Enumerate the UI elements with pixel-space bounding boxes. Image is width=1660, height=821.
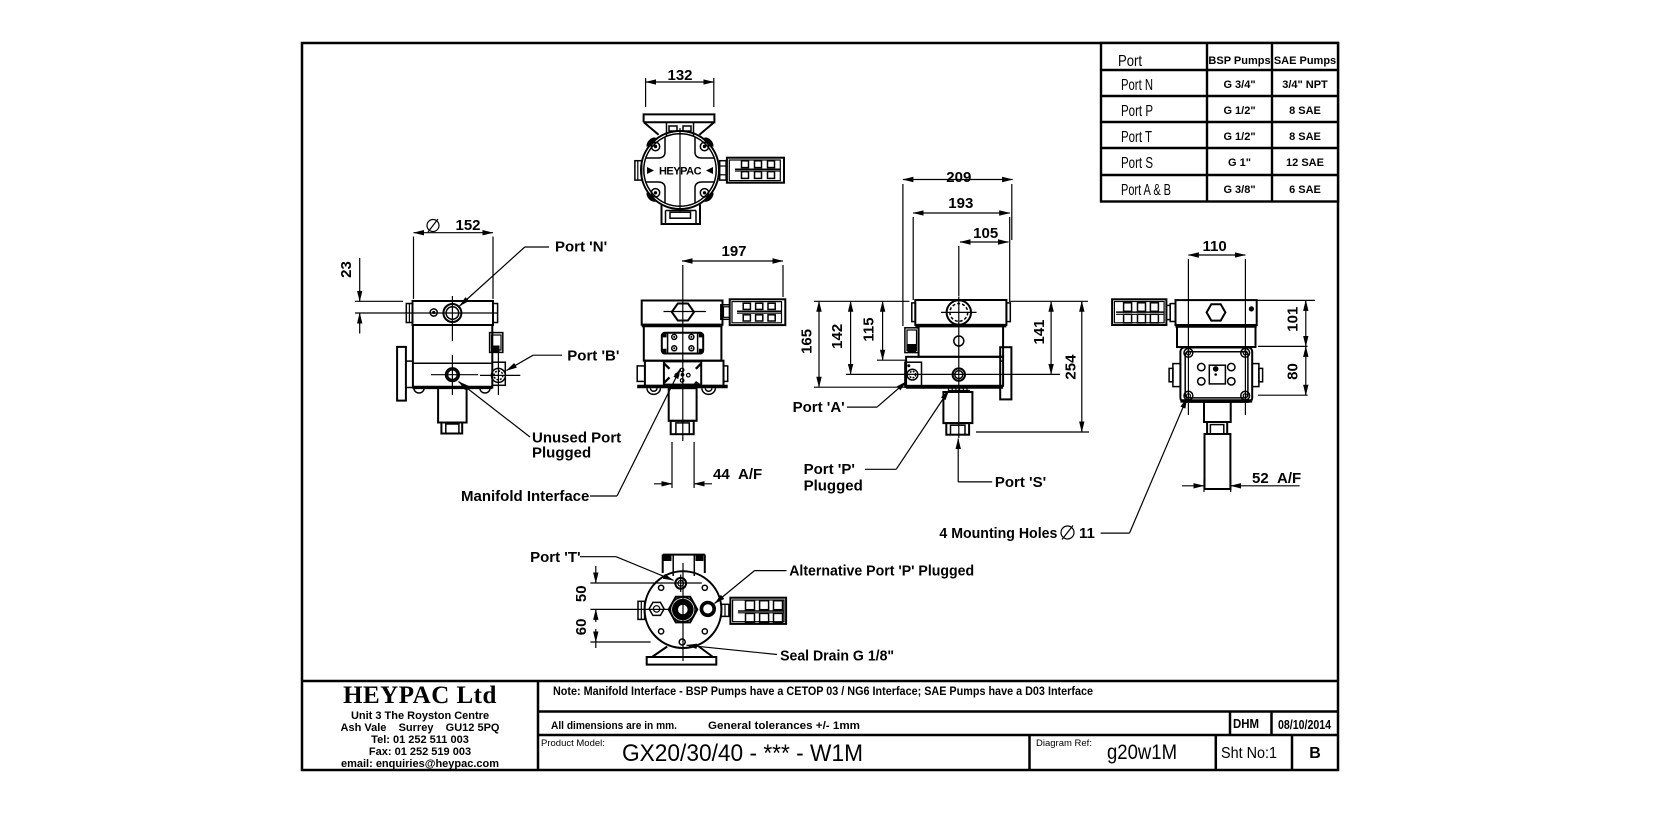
svg-text:B: B — [1309, 745, 1321, 762]
alternative port P circle — [701, 603, 714, 616]
svg-text:8 SAE: 8 SAE — [1289, 105, 1321, 117]
svg-text:Port T: Port T — [1121, 129, 1152, 146]
svg-text:G 1/2": G 1/2" — [1223, 105, 1255, 117]
svg-text:23: 23 — [338, 261, 355, 278]
vertical centerline of top view — [679, 128, 681, 212]
dimension 209 — [903, 169, 1013, 326]
svg-text:Port 'A': Port 'A' — [793, 399, 845, 416]
shaft (view E) — [1204, 402, 1231, 489]
svg-text:All dimensions are in mm.: All dimensions are in mm. — [551, 720, 677, 732]
connector (view C) — [721, 299, 786, 325]
svg-text:Port 'N': Port 'N' — [555, 239, 607, 256]
top flange (view F) — [663, 555, 705, 576]
plugged port N (view D) — [941, 297, 977, 331]
bottom flange (view F) — [647, 647, 717, 665]
dimension 52 A/F — [1182, 470, 1301, 492]
company block text — [341, 682, 500, 770]
svg-text:Port 'P': Port 'P' — [804, 461, 855, 478]
svg-text:Note: Manifold Interface - BSP: Note: Manifold Interface - BSP Pumps hav… — [553, 684, 1093, 698]
svg-text:Port 'T': Port 'T' — [530, 549, 580, 566]
svg-text:152: 152 — [455, 217, 480, 234]
dimension dia 152 — [414, 217, 494, 299]
feet (view C) — [647, 388, 715, 394]
hex boss (view F) — [669, 597, 698, 623]
left mounting flange (view B) — [397, 347, 413, 401]
svg-text:Alternative Port 'P' Plugged: Alternative Port 'P' Plugged — [789, 563, 974, 580]
right neck (view F) — [721, 604, 729, 616]
lower body (view D) — [906, 357, 1003, 387]
port A — [905, 362, 922, 387]
label Port 'A' — [793, 382, 907, 417]
shaft (view D) — [943, 392, 972, 435]
svg-text:Port 'B': Port 'B' — [567, 348, 619, 365]
label Port 'T' — [530, 549, 673, 580]
D03 port pattern (view E) — [1198, 363, 1235, 385]
label Seal Drain G 1/8" — [687, 645, 895, 664]
svg-text:Port A & B: Port A & B — [1121, 182, 1171, 199]
svg-text:142: 142 — [829, 324, 846, 349]
port B — [480, 352, 520, 395]
hex nut (view C) — [664, 304, 707, 321]
plug hatch under port P — [948, 389, 970, 393]
right mounting flange (view D) — [1000, 325, 1011, 399]
label Manifold Interface — [461, 369, 681, 506]
label Port 'P' Plugged — [804, 390, 949, 495]
solenoid tab above port B — [490, 333, 503, 353]
bolt top-left — [651, 142, 659, 150]
svg-text:12 SAE: 12 SAE — [1286, 157, 1324, 169]
bolt slot arcs — [648, 139, 712, 200]
dim lines 50/60 extension lines — [590, 583, 701, 642]
svg-text:105: 105 — [973, 225, 998, 242]
dimension 44 A/F — [654, 442, 762, 488]
title block lines — [302, 681, 1338, 770]
dimension 141 — [1031, 301, 1051, 374]
svg-text:Ash Vale Surrey GU12 5PQ: Ash Vale Surrey GU12 5PQ — [341, 722, 500, 734]
left tab (view F) — [638, 601, 645, 619]
svg-text:Port: Port — [1118, 53, 1142, 70]
svg-text:SAE Pumps: SAE Pumps — [1274, 55, 1336, 67]
svg-text:email: enquiries@heypac.com: email: enquiries@heypac.com — [341, 758, 499, 770]
mid body (view C) — [644, 326, 722, 361]
manifold interface square (view C) — [664, 361, 702, 384]
svg-text:3/4" NPT: 3/4" NPT — [1282, 79, 1328, 91]
4-bolt interface plate (view C) — [662, 333, 704, 354]
svg-text:Port S: Port S — [1121, 155, 1153, 172]
cross cutout inside circle — [646, 137, 714, 204]
label Unused Port Plugged — [459, 382, 622, 462]
breather dot — [430, 309, 437, 316]
connector (view E) — [1112, 299, 1175, 325]
bolt top-right — [700, 142, 708, 150]
vertical centerline (view C) — [682, 265, 684, 441]
connector (view F) — [730, 598, 786, 624]
interface plate (view E) — [1180, 348, 1252, 402]
svg-text:101: 101 — [1285, 307, 1302, 332]
svg-text:Manifold Interface: Manifold Interface — [461, 488, 589, 505]
svg-text:110: 110 — [1202, 238, 1226, 255]
svg-text:6 SAE: 6 SAE — [1289, 184, 1321, 196]
svg-text:BSP Pumps: BSP Pumps — [1208, 55, 1270, 67]
svg-text:Plugged: Plugged — [804, 478, 863, 495]
label Alternative Port 'P' Plugged — [715, 563, 975, 604]
border frame — [302, 43, 1338, 770]
label Port 'N' — [460, 239, 608, 307]
dimension 197 — [682, 243, 783, 297]
solenoid (view D) — [905, 328, 919, 353]
svg-text:209: 209 — [946, 169, 971, 186]
svg-text:Tel: 01 252 511 003: Tel: 01 252 511 003 — [371, 734, 469, 746]
side tabs (view E) — [1169, 364, 1263, 387]
dimension 115 — [861, 301, 906, 360]
svg-text:50: 50 — [573, 585, 590, 602]
svg-text:Unit 3 The Royston Centre: Unit 3 The Royston Centre — [351, 710, 489, 722]
shaft (view B) — [438, 388, 467, 434]
svg-text:G 1/2": G 1/2" — [1223, 131, 1255, 143]
svg-text:08/10/2014: 08/10/2014 — [1278, 718, 1331, 732]
dimension 23 — [338, 258, 420, 334]
svg-text:GX20/30/40 - *** - W1M: GX20/30/40 - *** - W1M — [622, 740, 863, 767]
unused port (center, view B) — [431, 355, 478, 395]
label Port 'B' — [507, 348, 620, 371]
plate bottom heavy line (view E) — [1180, 399, 1252, 402]
top band (view E) — [1176, 300, 1257, 326]
dimension 80 — [1285, 346, 1306, 395]
svg-text:G 3/8": G 3/8" — [1223, 184, 1255, 196]
dimension 50 — [573, 566, 596, 622]
foot bumps (view B) — [414, 389, 490, 394]
svg-text:G 3/4": G 3/4" — [1223, 79, 1255, 91]
reservoir band (view B) — [406, 301, 497, 325]
top band (view D) — [912, 300, 1011, 326]
port T circle — [675, 575, 686, 593]
svg-text:g20w1M: g20w1M — [1107, 741, 1177, 764]
bolt bottom-left — [651, 189, 659, 197]
mid body (view D) — [919, 325, 1004, 357]
top flange of top view — [644, 114, 715, 136]
svg-text:HEYPAC: HEYPAC — [659, 166, 702, 178]
dimension 60 — [573, 619, 596, 648]
connector (top view) — [727, 158, 784, 183]
svg-text:115: 115 — [861, 317, 878, 341]
svg-text:11: 11 — [1079, 525, 1095, 542]
right neck of top view — [720, 161, 726, 180]
right ext lines (view E) — [1257, 300, 1315, 395]
svg-text:Port 'S': Port 'S' — [995, 474, 1046, 491]
svg-text:Product Model:: Product Model: — [541, 738, 605, 749]
port N — [420, 296, 498, 341]
svg-text:Port N: Port N — [1121, 77, 1153, 94]
HEYPAC name band — [647, 166, 713, 178]
svg-text:80: 80 — [1285, 363, 1302, 380]
port table — [1101, 43, 1338, 202]
dimension 254 — [976, 301, 1089, 432]
port P plugged (view D) — [953, 368, 965, 380]
svg-text:4 Mounting Holes: 4 Mounting Holes — [939, 525, 1057, 542]
svg-text:165: 165 — [798, 329, 815, 354]
right dim extension line top — [1010, 300, 1088, 302]
svg-text:Seal Drain G 1/8": Seal Drain G 1/8" — [780, 648, 894, 665]
seal drain hole — [679, 639, 685, 645]
left dim stack: top extension line — [814, 300, 910, 302]
dimension 165 — [798, 301, 906, 387]
breather dot (view E) — [1249, 306, 1254, 311]
svg-text:DHM: DHM — [1233, 716, 1259, 731]
screw holes (view F) — [659, 585, 708, 634]
svg-text:197: 197 — [721, 243, 746, 260]
dimension 193 — [913, 195, 1010, 302]
svg-text:Sht No:1: Sht No:1 — [1221, 745, 1277, 762]
mid body (view E) — [1177, 326, 1256, 347]
left tab of top view — [635, 161, 642, 180]
dimension 110 — [1188, 238, 1245, 415]
body (view B) — [413, 325, 492, 388]
label 4 Mounting Holes dia 11 — [939, 398, 1187, 542]
main circle (view F) — [645, 571, 722, 648]
label Port 'S' — [958, 439, 1046, 492]
svg-text:8 SAE: 8 SAE — [1289, 131, 1321, 143]
mounting hole screws (view E) — [1184, 349, 1250, 401]
dimension 101 — [1285, 300, 1306, 346]
dimension 132 — [646, 67, 714, 107]
svg-text:44 A/F: 44 A/F — [713, 466, 762, 483]
svg-text:HEYPAC Ltd: HEYPAC Ltd — [343, 682, 497, 709]
svg-text:Fax: 01 252 519 003: Fax: 01 252 519 003 — [369, 746, 471, 758]
top band (view C) — [642, 301, 723, 326]
svg-text:Port P: Port P — [1121, 103, 1153, 120]
svg-text:52 A/F: 52 A/F — [1252, 470, 1301, 487]
svg-text:254: 254 — [1063, 354, 1080, 380]
svg-text:G 1": G 1" — [1228, 157, 1251, 169]
left plug (view F) — [649, 602, 664, 615]
main circle of top view — [641, 131, 719, 209]
svg-text:Plugged: Plugged — [532, 445, 591, 462]
dimension 142 — [829, 301, 1060, 374]
bottom flange of top view — [662, 205, 701, 225]
vertical centerline (view D lower) — [958, 330, 960, 438]
svg-text:60: 60 — [573, 619, 590, 636]
svg-text:141: 141 — [1031, 319, 1048, 344]
svg-text:Diagram Ref:: Diagram Ref: — [1036, 738, 1092, 749]
svg-text:General tolerances +/- 1mm: General tolerances +/- 1mm — [708, 720, 860, 732]
dimension 105 — [959, 225, 1009, 296]
centerlines (view F) — [682, 563, 684, 661]
lower body (view C) — [637, 361, 728, 387]
shaft (view C) — [669, 388, 697, 434]
bolt bottom-right — [700, 189, 708, 197]
center ring (view F) — [671, 597, 696, 622]
svg-text:193: 193 — [948, 195, 973, 212]
hex plug (view E) — [1207, 304, 1226, 320]
